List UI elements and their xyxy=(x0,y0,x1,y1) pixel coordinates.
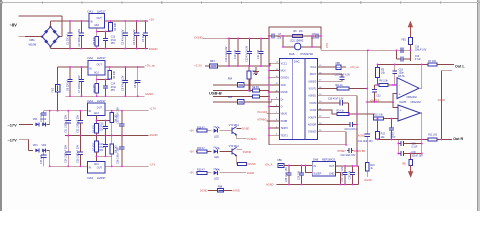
svg-text:DA7B: DA7B xyxy=(400,101,407,104)
resistor R15 10k xyxy=(377,64,379,67)
wire diode out lower xyxy=(46,149,49,151)
wire diode out upper xyxy=(46,123,49,125)
IC pin left row 3 xyxy=(274,77,280,79)
svg-text:IN: IN xyxy=(90,21,93,24)
capacitor C13 47uF 25V xyxy=(105,32,107,39)
capacitor C17 47uF 25V xyxy=(105,136,107,145)
svg-text:-17V: -17V xyxy=(149,162,155,166)
wire D+ row xyxy=(213,90,253,92)
wire stage2 input rail xyxy=(58,66,88,68)
capacitor C15 47uF 6.3V xyxy=(341,74,343,77)
svg-text:LM317: LM317 xyxy=(97,99,106,103)
sheet top border line with ruler ticks xyxy=(0,1,480,3)
svg-text:R3 240: R3 240 xyxy=(113,70,116,79)
wire led1 to VT1 xyxy=(220,130,233,132)
svg-text:VOUTR: VOUTR xyxy=(308,117,316,119)
svg-text:47uF: 47uF xyxy=(99,126,105,128)
wire feedback rail B xyxy=(378,138,428,140)
svg-text:LM337: LM337 xyxy=(97,176,106,180)
wire ref output xyxy=(335,165,358,167)
svg-text:C32 1000uF 25V: C32 1000uF 25V xyxy=(77,115,80,133)
svg-text:VDD: VDD xyxy=(281,85,286,87)
regulator DA3 LM337 xyxy=(87,162,105,173)
wire usb gnd top rail xyxy=(228,38,269,40)
svg-text:TEST0: TEST0 xyxy=(281,128,289,130)
svg-text:47uF: 47uF xyxy=(99,147,105,149)
svg-text:C28 10uF 16V: C28 10uF 16V xyxy=(286,167,288,182)
svg-text:+: + xyxy=(400,108,402,112)
svg-text:DGND3: DGND3 xyxy=(308,132,317,134)
svg-text:DA4: DA4 xyxy=(88,99,94,103)
svg-text:C15 47uF 6.3V: C15 47uF 6.3V xyxy=(335,75,351,77)
svg-text:R4 430: R4 430 xyxy=(93,84,96,93)
svg-text:PDNB: PDNB xyxy=(281,121,288,123)
svg-text:DGND1: DGND1 xyxy=(281,78,290,80)
svg-text:ZQ1 12MHZ: ZQ1 12MHZ xyxy=(290,40,304,43)
svg-text:C21 104: C21 104 xyxy=(257,49,260,59)
svg-text:OPA2132: OPA2132 xyxy=(411,101,422,104)
IC pin left row 2 xyxy=(274,70,280,72)
capacitor C37 10uF 16V xyxy=(344,166,346,173)
svg-text:C26: C26 xyxy=(412,144,417,146)
IC pin left row 8 xyxy=(274,113,280,115)
svg-text:LED: LED xyxy=(214,135,219,138)
svg-text:C18: C18 xyxy=(399,69,404,71)
wire stage1 +5V rail xyxy=(105,20,148,22)
wire stage2 output rail xyxy=(105,66,145,68)
svg-text:C9 104: C9 104 xyxy=(134,79,137,88)
svg-text:DGND: DGND xyxy=(194,35,202,39)
wire row5 to vertical xyxy=(323,95,357,97)
resistor R10 1M xyxy=(283,35,293,37)
svg-text:FB2: FB2 xyxy=(52,87,55,92)
wire dgnd to bead xyxy=(208,189,218,191)
svg-text:OPA2132: OPA2132 xyxy=(407,96,418,99)
svg-text:LM317: LM317 xyxy=(97,56,106,60)
IC pin left row 11 xyxy=(274,134,280,136)
svg-text:C38 104: C38 104 xyxy=(350,170,352,179)
wire to VD3 xyxy=(29,149,34,151)
svg-text:C36 100uF 25V: C36 100uF 25V xyxy=(117,147,120,164)
wire crystal bottom xyxy=(283,46,321,48)
svg-text:DOUT: DOUT xyxy=(310,74,317,76)
capacitor C2 1000uF 16V xyxy=(81,21,83,33)
svg-text:DGND: DGND xyxy=(242,128,250,131)
capacitor C43 agnd filter xyxy=(366,102,368,134)
svg-text:R11 100: R11 100 xyxy=(428,133,438,136)
wire bead down xyxy=(409,44,411,61)
svg-text:103uF 16V: 103uF 16V xyxy=(412,155,424,157)
wire to R10 with jog xyxy=(349,114,373,119)
svg-text:VD3: VD3 xyxy=(33,144,38,147)
window frame right edge xyxy=(477,0,480,211)
wire bead out xyxy=(341,66,346,68)
wire up to stage3 rail xyxy=(49,111,51,125)
svg-text:FB5: FB5 xyxy=(228,97,233,99)
wire dgnd label stub xyxy=(202,38,227,40)
svg-text:DA3: DA3 xyxy=(88,176,94,180)
svg-text:DA8: DA8 xyxy=(313,157,319,161)
capacitor C3 47uF 6.3V xyxy=(124,21,126,33)
svg-text:0.1uF: 0.1uF xyxy=(412,147,418,149)
IC pin left row 7 xyxy=(274,106,280,108)
svg-text:VCC1: VCC1 xyxy=(281,63,288,65)
svg-text:+5V: +5V xyxy=(189,149,194,153)
svg-text:C20 47uF 6.3V: C20 47uF 6.3V xyxy=(246,46,249,62)
svg-text:C42 10uF 16V: C42 10uF 16V xyxy=(341,155,356,157)
wire AC 17V upper xyxy=(19,123,33,125)
svg-text:D-: D- xyxy=(281,107,284,109)
svg-text:ADJ: ADJ xyxy=(94,24,99,27)
svg-text:R6 3.3k: R6 3.3k xyxy=(379,79,388,82)
svg-text:OUT: OUT xyxy=(97,166,103,169)
svg-text:DA2: DA2 xyxy=(88,56,94,60)
svg-text:C16: C16 xyxy=(99,123,104,125)
wire bead to agnd xyxy=(224,189,232,191)
svg-text:DGND: DGND xyxy=(365,179,373,182)
svg-text:AGND BN: AGND BN xyxy=(354,150,366,153)
wire row2 voutl xyxy=(323,73,342,75)
svg-text:VOUTL: VOUTL xyxy=(309,89,317,91)
capacitor C38 104 xyxy=(352,166,354,173)
svg-text:25V: 25V xyxy=(99,150,104,152)
svg-text:OUT: OUT xyxy=(329,165,335,168)
svg-text:C23: C23 xyxy=(376,96,381,98)
capacitor C5 104 xyxy=(145,21,147,33)
svg-text:DA7A: DA7A xyxy=(398,75,405,78)
svg-text:C19 104: C19 104 xyxy=(234,49,237,59)
svg-text:+5V: +5V xyxy=(189,129,194,133)
resistor R4 430 xyxy=(96,80,98,84)
capacitor C20 47uF 6.3V xyxy=(323,102,340,104)
wire down to stage4 rail xyxy=(49,150,51,166)
svg-text:PCM2702: PCM2702 xyxy=(301,52,314,56)
wire ref gnd pin xyxy=(335,173,340,185)
svg-text:~17V: ~17V xyxy=(8,137,18,142)
wire DA4 ADJ xyxy=(97,115,112,120)
capacitor C44 104 xyxy=(43,150,45,155)
svg-text:Out R: Out R xyxy=(453,137,463,141)
wire decoupling vert B xyxy=(421,139,423,153)
wire xtal right node xyxy=(303,35,312,37)
svg-text:22p: 22p xyxy=(277,36,282,39)
svg-text:XTO: XTO xyxy=(325,43,329,48)
IC pin right row 9 xyxy=(317,124,323,126)
svg-text:AGNDR: AGNDR xyxy=(308,124,317,127)
power port +5V arrow xyxy=(409,27,411,35)
svg-text:HPSET: HPSET xyxy=(337,150,346,153)
IC pin left row 5 xyxy=(274,91,280,93)
wire output common bracket xyxy=(441,71,452,140)
capacitor C29 104 xyxy=(301,166,303,173)
resistor R7 430 xyxy=(96,136,98,142)
svg-text:+5V: +5V xyxy=(189,171,194,175)
svg-text:DB1: DB1 xyxy=(30,38,36,42)
resistor R8 1k5 xyxy=(111,136,113,144)
wire stage3 +17V rail xyxy=(105,110,149,112)
protection diode VD6 xyxy=(253,95,260,98)
wire mute stub xyxy=(266,120,274,122)
svg-text:C41 10uF 16V: C41 10uF 16V xyxy=(358,141,373,143)
capacitor C26 0.1uF xyxy=(398,143,401,145)
wire DA3 ADJ xyxy=(97,156,112,161)
capacitor C16 4.7uF xyxy=(396,50,398,59)
svg-text:C33 100uF 25V: C33 100uF 25V xyxy=(117,107,120,124)
svg-text:R10 3.3k: R10 3.3k xyxy=(374,115,384,117)
wire 3V3 rail xyxy=(218,65,271,67)
svg-text:R7 430: R7 430 xyxy=(93,143,96,151)
capacitor C14 47uF 25V xyxy=(105,80,107,86)
resistor R3 240 xyxy=(109,67,111,71)
svg-text:R1 240: R1 240 xyxy=(114,22,117,31)
svg-text:1.5k: 1.5k xyxy=(253,73,258,76)
capacitor C7 1000uF 16V xyxy=(81,67,83,79)
svg-text:USB-B: USB-B xyxy=(209,91,222,96)
svg-text:C18 10uF 16V: C18 10uF 16V xyxy=(225,46,228,62)
wire vcc2 to bead xyxy=(323,66,336,68)
svg-text:C29 104: C29 104 xyxy=(299,171,301,180)
wire stage4 -17V rail xyxy=(105,165,149,167)
wire arrow to bead xyxy=(409,35,411,38)
ferrite bead FB6 xyxy=(336,65,341,69)
wire crystal top loop xyxy=(269,27,321,36)
IC pin right row 3 xyxy=(317,80,323,82)
wire row8 stub xyxy=(323,116,330,118)
capacitor C4 47uF 6.3V xyxy=(136,21,138,33)
svg-text:+5V_an: +5V_an xyxy=(350,65,360,69)
IC pin left row 4 xyxy=(274,84,280,86)
svg-text:C6 220uF: C6 220uF xyxy=(66,80,69,91)
wire VBUS row xyxy=(213,84,237,86)
IC pin right row 4 xyxy=(317,88,323,90)
IC pin right row 5 xyxy=(317,95,323,97)
capacitor C10 100uF 16V xyxy=(394,49,401,51)
wire xtal to +5 rail xyxy=(320,36,322,50)
resistor R1 240 xyxy=(110,21,112,22)
svg-text:DGND: DGND xyxy=(200,189,208,193)
svg-text:OUT: OUT xyxy=(97,17,103,20)
wire jog down xyxy=(28,139,30,150)
svg-text:R2 430: R2 430 xyxy=(93,36,96,45)
svg-text:PL/BCM: PL/BCM xyxy=(247,138,256,141)
svg-text:100uF 16V: 100uF 16V xyxy=(415,49,427,52)
capacitor C33 100uF 25V xyxy=(121,111,123,124)
wire xtal left down xyxy=(282,36,284,47)
wire vref bottom rail xyxy=(367,101,393,103)
svg-text:Out L: Out L xyxy=(455,65,465,69)
wire stage3 input rail xyxy=(44,110,88,112)
svg-text:AGND: AGND xyxy=(358,135,365,138)
resistor R16 1k xyxy=(366,141,368,163)
wire D- row xyxy=(213,101,237,103)
svg-text:~8V: ~8V xyxy=(10,22,18,27)
svg-text:W10M: W10M xyxy=(29,43,38,47)
svg-text:R5 430: R5 430 xyxy=(93,125,96,133)
wire raw supply vertical xyxy=(57,67,59,111)
svg-text:C4 47uF 6.3V: C4 47uF 6.3V xyxy=(133,29,136,45)
svg-text:+5V: +5V xyxy=(149,17,154,21)
svg-text:150p: 150p xyxy=(390,137,396,139)
svg-text:VT2 9014: VT2 9014 xyxy=(229,146,240,148)
svg-text:1M: 1M xyxy=(299,30,302,33)
wire opamp A noninverting input xyxy=(393,93,397,102)
svg-text:FB1: FB1 xyxy=(401,38,406,41)
wire AC1 to bridge right vertex xyxy=(59,36,62,38)
svg-text:ADJ: ADJ xyxy=(94,163,99,166)
wire 3V3 into bead xyxy=(205,65,210,67)
IC pin left row 1 xyxy=(274,62,280,64)
wire to opamp B inverting input xyxy=(384,118,398,120)
svg-text:LED: LED xyxy=(214,177,219,180)
capacitor C31 1000uF 25V xyxy=(67,111,69,121)
svg-text:C30 104: C30 104 xyxy=(40,112,43,122)
wire ref ground rail xyxy=(277,183,359,185)
capacitor C35 1000uF 25V xyxy=(79,136,81,153)
svg-text:C1 220uF: C1 220uF xyxy=(66,34,69,45)
capacitor C1 220uF xyxy=(69,21,71,33)
wire to opamp A inverting input xyxy=(393,84,397,86)
wire row7 left stub xyxy=(269,106,274,108)
capacitor C9 104 xyxy=(137,67,139,81)
IC pin left row 10 xyxy=(274,127,280,129)
capacitor C34 1000uF 25V xyxy=(67,136,69,153)
IC pin left row 6 xyxy=(274,98,280,100)
wire decoupling vert A xyxy=(397,139,399,153)
capacitor C39 hpsel to agnd xyxy=(347,149,349,151)
wire mid AGND rail xyxy=(65,135,149,137)
svg-text:AGND: AGND xyxy=(145,92,153,96)
svg-text:C34 1000uF 25V: C34 1000uF 25V xyxy=(65,145,68,163)
svg-text:IN: IN xyxy=(89,166,92,169)
capacitor C18 10uF 16V xyxy=(228,39,230,52)
svg-text:FB1: FB1 xyxy=(402,163,407,165)
capacitor C19 104 xyxy=(237,39,239,52)
wire vbus to IC xyxy=(244,84,274,86)
resistor R6 1k5 xyxy=(111,111,113,113)
svg-text:FB9: FB9 xyxy=(278,160,283,162)
wire stage4 input rail xyxy=(50,165,88,167)
resistor R21 emitter xyxy=(236,163,239,165)
svg-text:FB4: FB4 xyxy=(228,79,233,81)
svg-text:~17V: ~17V xyxy=(8,123,18,128)
svg-text:OUT: OUT xyxy=(97,107,103,110)
svg-text:MCK: MCK xyxy=(281,71,287,73)
svg-text:FB3: FB3 xyxy=(210,60,215,63)
svg-text:ADJ: ADJ xyxy=(94,112,99,115)
svg-text:R16: R16 xyxy=(370,165,375,167)
wire vt2 collector to label xyxy=(237,148,242,150)
capacitor C23 22p xyxy=(312,35,316,37)
power port AGND down arrow xyxy=(410,166,412,172)
svg-text:-: - xyxy=(399,83,400,87)
svg-text:VCC2: VCC2 xyxy=(310,67,317,69)
resistor R12 10k xyxy=(377,119,379,132)
svg-text:AGND3: AGND3 xyxy=(308,80,317,83)
wire 3v3 to pin row1 xyxy=(270,63,274,66)
svg-text:SLEEP: SLEEP xyxy=(314,172,322,175)
IC pin right row 6 xyxy=(317,102,323,104)
wire ref in xyxy=(284,165,312,167)
svg-text:AGND: AGND xyxy=(232,189,240,193)
svg-text:LM317: LM317 xyxy=(97,10,106,14)
wire test1 stub xyxy=(269,134,274,136)
svg-text:DA1: DA1 xyxy=(88,10,94,14)
wire feedback rail A xyxy=(378,63,422,65)
svg-text:C19 0.047uF: C19 0.047uF xyxy=(345,129,359,131)
svg-text:C22: C22 xyxy=(390,133,395,135)
wire stage2 ground rail xyxy=(66,95,145,97)
svg-text:GND: GND xyxy=(329,172,335,175)
svg-text:25V: 25V xyxy=(111,42,116,45)
svg-text:-: - xyxy=(400,117,401,121)
resistor R2 430 xyxy=(96,32,98,37)
svg-text:+17V: +17V xyxy=(149,107,156,111)
wire vertical bus right of IC xyxy=(356,96,358,166)
IC pin right row 10 xyxy=(317,131,323,133)
IC pin left row 9 xyxy=(274,120,280,122)
svg-text:IN: IN xyxy=(89,67,92,70)
svg-text:C37 10uF 16V: C37 10uF 16V xyxy=(342,166,344,181)
wire to DA1 IN xyxy=(50,20,89,22)
wire plugdet stub xyxy=(266,113,274,115)
svg-text:VD1: VD1 xyxy=(33,118,38,121)
wire bridge+ up xyxy=(49,21,51,27)
wire +5V feed rail xyxy=(321,49,411,51)
svg-text:+3.3V: +3.3V xyxy=(194,63,202,67)
capacitor C23 input coupling xyxy=(373,85,375,90)
wire c20 down to r14 node xyxy=(348,103,350,114)
capacitor C30 103uF 16V xyxy=(398,153,401,155)
svg-text:REF196GS: REF196GS xyxy=(322,157,336,161)
wire vref vertical xyxy=(366,50,368,102)
svg-text:AGND: AGND xyxy=(266,183,274,187)
svg-text:SSPND: SSPND xyxy=(243,151,252,154)
wire opamp B output feedback xyxy=(420,113,422,139)
svg-text:DGND: DGND xyxy=(247,172,255,175)
svg-text:VD4: VD4 xyxy=(42,144,47,147)
wire DA2 ADJ xyxy=(97,75,110,80)
wire AC2 to bridge left vertex xyxy=(19,35,43,37)
svg-text:4.7uF: 4.7uF xyxy=(415,58,422,61)
svg-text:IN: IN xyxy=(89,110,92,113)
wire led3 right xyxy=(220,172,247,174)
svg-text:C17: C17 xyxy=(99,144,104,146)
capacitor C36 100uF 25V xyxy=(121,136,123,147)
wire stage1 ground rail xyxy=(50,48,148,50)
svg-text:25V: 25V xyxy=(111,89,116,92)
wire xtal left node xyxy=(283,35,293,37)
capacitor C32 1000uF 25V xyxy=(79,111,81,121)
capacitor C30 104 xyxy=(43,111,45,113)
wire row7 jog xyxy=(323,110,337,114)
svg-text:+5V_A: +5V_A xyxy=(265,162,273,166)
wire xtal right down xyxy=(311,36,313,47)
wire D- to IC xyxy=(244,99,274,102)
svg-text:C5 104: C5 104 xyxy=(142,33,145,42)
capacitor C28 10uF 16V xyxy=(288,166,290,173)
capacitor C16 47uF 25V xyxy=(105,121,107,127)
svg-text:VCCR: VCCR xyxy=(310,110,317,112)
wire opamp A output feedback xyxy=(419,64,422,88)
svg-text:25V: 25V xyxy=(99,129,104,131)
svg-text:C35 1000uF 25V: C35 1000uF 25V xyxy=(77,145,80,163)
wire DGND bus left of IC xyxy=(268,27,270,145)
svg-text:DGND: DGND xyxy=(149,47,158,51)
wire AC 17V lower xyxy=(19,138,29,140)
wire DA1 ADJ xyxy=(97,28,111,32)
bridge rectifier DB1 xyxy=(42,27,59,47)
capacitor C8 47uF 6.3V xyxy=(124,67,126,81)
